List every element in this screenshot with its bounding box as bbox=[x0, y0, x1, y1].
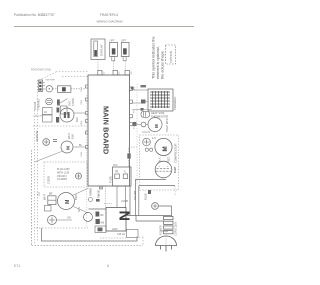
svg-text:1.5: 1.5 bbox=[152, 136, 156, 140]
component R1 (PTC) bbox=[58, 86, 71, 93]
cabinet dashed inner bottom bbox=[36, 227, 88, 229]
ground screw right bbox=[152, 203, 159, 210]
svg-text:THERMO: THERMO bbox=[37, 99, 41, 110]
svg-text:BLUE: BLUE bbox=[144, 193, 148, 200]
cabinet dashed border left lines bbox=[31, 150, 33, 246]
svg-text:DISPLAY: DISPLAY bbox=[100, 44, 104, 56]
board top connector labels bbox=[104, 71, 134, 75]
small capacitor symbol bbox=[53, 139, 57, 141]
svg-text:6: 6 bbox=[107, 264, 109, 268]
power cord spec dashed box bbox=[44, 162, 87, 187]
svg-text:CN4: CN4 bbox=[81, 151, 83, 156]
svg-text:21GB: 21GB bbox=[121, 199, 128, 203]
option box B bbox=[110, 42, 118, 56]
svg-text:L: L bbox=[125, 170, 127, 174]
svg-text:BLK: BLK bbox=[71, 134, 75, 139]
dashed below N box bbox=[100, 237, 126, 239]
fuse drop to LN box bbox=[129, 147, 138, 167]
svg-text:2HA: 2HA bbox=[113, 164, 118, 167]
bottom left ground wire bbox=[42, 228, 138, 241]
svg-text:BLK: BLK bbox=[75, 117, 79, 122]
svg-text:15 AMPS: 15 AMPS bbox=[57, 178, 67, 181]
left connector strip bbox=[38, 80, 42, 92]
svg-text:BRN: BRN bbox=[74, 194, 78, 200]
svg-text:M: M bbox=[66, 146, 71, 150]
svg-text:STEP MTR: STEP MTR bbox=[165, 118, 169, 132]
wires cap to junction bbox=[136, 180, 167, 216]
aux connector below fan box bbox=[45, 206, 52, 212]
aux switch boxes bbox=[43, 108, 53, 115]
svg-text:Publication No. 808837757: Publication No. 808837757 bbox=[14, 13, 55, 17]
optional symbol box bbox=[166, 45, 176, 64]
partition dashed near terminal block bbox=[136, 84, 138, 186]
run capacitor circle bbox=[155, 161, 172, 178]
svg-text:OPT: OPT bbox=[110, 39, 116, 42]
svg-text:SVC: SVC bbox=[68, 101, 72, 106]
cabinet dashed bottom right corner bbox=[136, 236, 143, 238]
svg-text:CORD 125V: CORD 125V bbox=[174, 221, 178, 236]
small box right bbox=[61, 106, 68, 114]
svg-text:the actual shape: the actual shape bbox=[161, 51, 165, 79]
switch cluster left of N box bbox=[84, 213, 93, 222]
svg-text:element is optional,: element is optional, bbox=[156, 46, 160, 79]
partition dashed vertical bbox=[86, 95, 88, 228]
svg-text:FUSE: FUSE bbox=[109, 176, 113, 183]
junction wires bbox=[129, 186, 131, 216]
svg-text:GRND: GRND bbox=[89, 188, 93, 196]
step motor circle bbox=[148, 118, 162, 132]
board bottom connector bbox=[100, 186, 103, 189]
svg-text:CORD: CORD bbox=[47, 176, 51, 184]
transformer circle T1 bbox=[60, 108, 74, 122]
switch lever 2 bbox=[57, 99, 68, 106]
header rule bbox=[14, 26, 194, 28]
cabinet dashed border top bbox=[56, 71, 89, 73]
option box C bbox=[121, 42, 129, 56]
wire S1 to R1 bbox=[53, 88, 58, 90]
svg-text:PLUG: PLUG bbox=[162, 230, 169, 233]
svg-text:125V: 125V bbox=[112, 228, 118, 231]
wire M1 to board bbox=[73, 146, 86, 148]
svg-text:This symbol indicates the: This symbol indicates the bbox=[152, 36, 156, 79]
svg-text:M: M bbox=[154, 124, 159, 128]
wires board to terminal block bbox=[132, 89, 148, 91]
svg-text:SENSOR: SENSOR bbox=[35, 131, 39, 142]
wire from ground screw to cord bbox=[158, 206, 171, 217]
thermistor circle bbox=[43, 139, 50, 146]
motor circle M1 bbox=[61, 141, 73, 153]
svg-text:A-B 1/4: A-B 1/4 bbox=[117, 233, 126, 236]
svg-text:CAP: CAP bbox=[173, 167, 177, 173]
dark component bars bbox=[57, 100, 60, 106]
option box A (display board) bbox=[91, 39, 105, 60]
board right stub labels bbox=[134, 86, 137, 129]
thermostat circle S2 bbox=[46, 98, 53, 105]
separator dashed bbox=[33, 125, 88, 127]
svg-text:RD-19B: RD-19B bbox=[133, 191, 137, 200]
svg-text:CN2: CN2 bbox=[81, 99, 83, 104]
svg-text:M: M bbox=[162, 146, 169, 151]
board left connectors bbox=[86, 85, 89, 149]
svg-text:FRA07EPU1: FRA07EPU1 bbox=[100, 13, 118, 17]
cabinet dashed chamfer top-left bbox=[39, 72, 56, 81]
main board outline bbox=[88, 75, 130, 186]
wire option C to board bbox=[124, 61, 126, 70]
svg-text:SW2B: SW2B bbox=[97, 190, 101, 198]
cabinet dashed border bottom bbox=[32, 245, 144, 247]
svg-text:ROOM AIR COND.: ROOM AIR COND. bbox=[31, 69, 52, 72]
svg-text:BR: BR bbox=[49, 193, 53, 196]
ground screw in cord box bbox=[76, 173, 82, 179]
compressor circle bbox=[155, 138, 172, 155]
wires LN box to N plug box bbox=[116, 186, 118, 208]
svg-text:CN3: CN3 bbox=[81, 120, 83, 125]
svg-text:1.5A 125V: 1.5A 125V bbox=[33, 115, 44, 118]
svg-text:M: M bbox=[65, 200, 71, 204]
svg-text:HEAT SINK: HEAT SINK bbox=[151, 111, 165, 115]
aux box right of N box bbox=[127, 230, 139, 238]
OLP circle bbox=[143, 138, 151, 146]
wire diagonal to M1 bbox=[35, 151, 63, 162]
compressor compartment dashed box bbox=[140, 135, 179, 190]
svg-text:WHT: WHT bbox=[67, 133, 71, 139]
overload two circles bbox=[145, 148, 148, 151]
svg-text:COMPRESSOR: COMPRESSOR bbox=[174, 144, 178, 163]
svg-text:MAIN BOARD: MAIN BOARD bbox=[102, 106, 111, 154]
ground screw bottom left bbox=[48, 216, 57, 225]
svg-text:CORD: CORD bbox=[71, 98, 75, 106]
power cord stack bbox=[164, 217, 174, 234]
switch S1 circle bbox=[46, 86, 52, 92]
wire option B to board bbox=[113, 61, 115, 70]
board top connectors bbox=[98, 70, 130, 75]
board left stub labels bbox=[81, 86, 83, 156]
svg-text:THERMISTOR: THERMISTOR bbox=[151, 115, 168, 119]
power plug bbox=[156, 236, 177, 246]
svg-text:GN: GN bbox=[67, 217, 71, 220]
svg-text:21B: 21B bbox=[39, 191, 41, 196]
svg-text:RED: RED bbox=[168, 157, 171, 162]
svg-text:SW PWR: SW PWR bbox=[46, 80, 56, 82]
wire R1 to board bbox=[71, 88, 86, 90]
N plug box bbox=[106, 208, 126, 232]
svg-text:OPTION: OPTION bbox=[169, 51, 173, 63]
svg-text:ROOM: ROOM bbox=[33, 102, 37, 110]
capacitor stack boxes bbox=[48, 196, 56, 205]
svg-text:E71: E71 bbox=[14, 264, 20, 268]
fan motor circle M2 bbox=[58, 193, 75, 210]
terminal block bbox=[148, 89, 173, 111]
note text (rotated): this symbol indicates the element is optional bbox=[152, 36, 165, 79]
svg-text:TERMINAL: TERMINAL bbox=[173, 96, 177, 110]
wire T1 to board bbox=[74, 112, 86, 114]
svg-text:WIRING DIAGRAM: WIRING DIAGRAM bbox=[97, 20, 124, 24]
heat sink thermistor bbox=[141, 111, 150, 117]
board right connectors bbox=[130, 87, 133, 126]
wire under block bbox=[132, 109, 152, 111]
svg-text:OPT: OPT bbox=[121, 39, 127, 42]
wire option A to board bbox=[97, 60, 99, 71]
power terminals sub-box L N bbox=[113, 167, 132, 186]
svg-text:WHT: WHT bbox=[43, 194, 47, 200]
